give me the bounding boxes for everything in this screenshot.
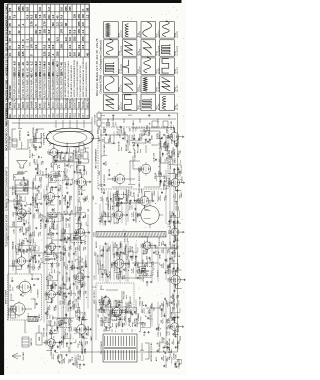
svg-text:RF UNIT: RF UNIT: [8, 308, 10, 316]
resistor R200: [118, 248, 121, 256]
svg-text:6T8: 6T8: [38, 103, 42, 108]
svg-text:470K: 470K: [151, 134, 153, 139]
capacitor C150: [70, 301, 75, 309]
svg-text:270: 270: [86, 264, 88, 267]
svg-text:C219 .047: C219 .047: [150, 311, 152, 320]
capacitor C200: [116, 202, 119, 207]
wire stage net: [114, 191, 124, 203]
module resistor R93: [124, 291, 127, 299]
brightness control R177: [126, 143, 131, 153]
ground symbol: [124, 311, 126, 313]
svg-text:R91: R91: [101, 285, 103, 289]
svg-text:470K: 470K: [174, 127, 176, 132]
net label: [44, 197, 46, 200]
svg-text:AGC: AGC: [175, 236, 178, 241]
bottom right terminal components: [150, 121, 168, 127]
junction dot: [78, 228, 81, 231]
ground symbol: [85, 266, 87, 268]
wire stub: [86, 222, 89, 226]
svg-text:6CG7: 6CG7: [51, 101, 55, 108]
wire stage net: [61, 229, 71, 239]
svg-text:255: 255: [64, 6, 68, 11]
svg-text:T101 POWER: T101 POWER: [101, 341, 103, 354]
IF transformer T9: [69, 234, 87, 243]
net label: [16, 247, 18, 252]
junction dot: [52, 169, 55, 172]
svg-text:AUDIO: AUDIO: [95, 241, 98, 248]
svg-text:AGC: AGC: [177, 152, 180, 157]
border frame right bar: [0, 0, 182, 3]
svg-text:15,750 CPS: 15,750 CPS: [121, 45, 123, 55]
resistor R156: [62, 228, 67, 234]
wire stub: [171, 151, 174, 155]
capacitor C262: [175, 138, 180, 145]
wire stub: [27, 202, 30, 205]
net label: [182, 176, 184, 183]
IF transformer T1: [55, 319, 73, 328]
net label speckle group: [7, 126, 178, 358]
resistor R134: [57, 262, 61, 267]
junction dot: [68, 246, 71, 249]
coil L212: [132, 212, 134, 218]
net label: [64, 292, 66, 297]
capacitor C195: [119, 318, 121, 321]
wire stub: [175, 199, 178, 202]
svg-text:V12: V12: [60, 113, 64, 118]
svg-text:FUNCTION: FUNCTION: [9, 85, 12, 98]
wire stage net: [102, 316, 110, 328]
resistor R177: [79, 217, 82, 226]
svg-text:GRID: GRID: [64, 334, 66, 339]
resistor R227: [167, 356, 171, 361]
svg-text:15,750 CPS: 15,750 CPS: [121, 63, 123, 73]
svg-text:NO.: NO.: [9, 113, 12, 118]
wire tuner outputs: [16, 266, 39, 333]
wire HV extra nets: [112, 135, 166, 187]
resistor R234: [167, 263, 171, 269]
capacitor C177: [80, 241, 82, 244]
coil L260: [174, 193, 176, 199]
svg-text:V17: V17: [81, 113, 85, 118]
svg-text:V11: V11: [55, 113, 59, 118]
resistor R136: [50, 223, 55, 229]
capacitor C161: [67, 195, 72, 204]
resistor R150: [61, 282, 66, 289]
wire stub: [20, 214, 23, 217]
wire stub: [115, 313, 118, 317]
resistor R183: [76, 147, 79, 158]
svg-text:NOTE 5: NOTE 5: [158, 270, 160, 277]
tube V14: [110, 306, 122, 319]
net label: [85, 195, 87, 201]
tube V18: [137, 194, 149, 207]
svg-text:1.2: 1.2: [47, 7, 51, 11]
svg-text:6: 6: [63, 118, 65, 119]
capacitor C145: [66, 342, 69, 347]
junction dot: [142, 304, 145, 307]
svg-text:TELEVISION CHASSIS KCS68 — SCH: TELEVISION CHASSIS KCS68 — SCHEMATIC CIR…: [5, 166, 8, 247]
oscillogram caption heading: [95, 38, 102, 96]
wire stub: [117, 127, 120, 130]
resistor R233: [167, 301, 171, 307]
svg-text:6S4: 6S4: [60, 103, 64, 108]
svg-text:7.6: 7.6: [13, 14, 17, 18]
svg-text:2.2: 2.2: [64, 37, 68, 41]
svg-text:VIDEO: VIDEO: [159, 132, 161, 139]
wire CRT neck leads: [12, 129, 44, 149]
wire stage net: [157, 174, 167, 182]
capacitor C128: [49, 329, 52, 334]
svg-text:NC: NC: [77, 52, 81, 56]
tube V13: [75, 176, 86, 188]
junction dot: [22, 186, 25, 189]
resistor R167: [85, 340, 89, 345]
svg-text:2.2: 2.2: [55, 22, 59, 26]
svg-text:CATH: CATH: [12, 260, 15, 266]
capacitor C188: [107, 271, 112, 278]
capacitor C121: [38, 179, 43, 188]
ground symbol: [24, 204, 26, 206]
resistor R157: [66, 217, 69, 227]
wire stage net: [99, 263, 107, 275]
capacitor C213: [133, 212, 138, 221]
svg-text:5U4G: 5U4G: [81, 101, 85, 108]
resistor R267: [171, 120, 174, 129]
junction dot: [99, 249, 102, 252]
ground symbol: [182, 231, 184, 233]
capacitor C175: [81, 266, 84, 271]
capacitor C207: [127, 307, 132, 314]
capacitor C113: [32, 250, 37, 260]
capacitor C156: [64, 237, 67, 242]
capacitor C187: [101, 273, 104, 278]
svg-text:© JOHN F. RIDER: © JOHN F. RIDER: [5, 108, 8, 127]
capacitor C157: [60, 232, 65, 241]
wire stub: [68, 211, 71, 215]
resistor R173: [82, 277, 85, 287]
svg-text:275V: 275V: [64, 292, 66, 297]
svg-text:HTR: HTR: [60, 300, 62, 305]
resistor R247: [171, 311, 174, 320]
resistor R202: [119, 196, 122, 206]
svg-text:C245 33: C245 33: [177, 342, 179, 349]
svg-text:40MF: 40MF: [173, 220, 175, 226]
wire tube V4 leads: [17, 204, 29, 222]
capacitor C240: [162, 153, 164, 156]
resistor R220: [140, 296, 143, 305]
svg-text:-45: -45: [51, 62, 55, 66]
svg-text:6.8: 6.8: [51, 44, 55, 48]
wire stage net: [48, 176, 56, 187]
net label: [95, 241, 98, 248]
capacitor C214: [129, 200, 132, 205]
capacitor C125: [54, 350, 56, 353]
junction dot: [145, 127, 148, 130]
resistor R195: [122, 322, 126, 327]
wire tube V18 leads: [145, 191, 153, 209]
svg-text:255: 255: [60, 44, 64, 49]
svg-text:RF AMPLIFIER KRK32 UNIT: RF AMPLIFIER KRK32 UNIT: [14, 66, 17, 98]
net label: [111, 302, 113, 308]
svg-text:BOOST: BOOST: [130, 295, 132, 303]
capacitor C141: [51, 186, 54, 191]
svg-text:270K: 270K: [35, 199, 37, 204]
junction dot: [84, 348, 87, 351]
wire stub: [167, 221, 170, 225]
net label: [173, 268, 175, 274]
wire stub: [167, 226, 170, 229]
capacitor C122: [38, 156, 40, 159]
coil L103: [21, 227, 23, 233]
svg-text:.005: .005: [117, 253, 119, 257]
capacitor C123: [35, 163, 40, 170]
coil L109: [32, 264, 34, 270]
resistor R197: [116, 299, 119, 307]
capacitor C260: [176, 145, 178, 148]
svg-text:R266 470K: R266 470K: [172, 133, 174, 143]
svg-text:2.2: 2.2: [77, 44, 81, 48]
net label: [58, 170, 61, 175]
svg-text:170: 170: [13, 72, 17, 77]
resistor R170: [76, 306, 81, 313]
net label: [30, 138, 32, 143]
wire bottom bus extension: [100, 113, 178, 125]
svg-text:Chassis KCS68 — Oscillograms (: Chassis KCS68 — Oscillograms (Continued): [99, 40, 103, 93]
svg-text:AGC: AGC: [58, 170, 61, 175]
net label 18KV: [99, 136, 101, 142]
wire stage net: [75, 310, 83, 318]
speaker LS1: [17, 161, 32, 168]
wire B+ bus top: [8, 120, 10, 319]
capacitor C107: [20, 205, 23, 210]
svg-text:6SN7: 6SN7: [46, 339, 48, 345]
svg-text:140V: 140V: [52, 198, 54, 203]
svg-text:KRK32 TUNER: KRK32 TUNER: [6, 289, 8, 304]
wire tube V3 leads: [17, 252, 29, 269]
svg-text:7: 7: [77, 118, 79, 119]
svg-text:6CB6: 6CB6: [142, 242, 144, 248]
net label: [14, 198, 16, 203]
capacitor C130: [27, 131, 30, 136]
wire stub: [81, 187, 84, 190]
resistor R124: [57, 353, 61, 359]
tuner channel strip box: [8, 306, 15, 318]
svg-text:120K: 120K: [129, 263, 131, 268]
wire stage net: [76, 355, 84, 365]
svg-text:7.6: 7.6: [38, 14, 42, 18]
capacitor C132: [51, 284, 54, 289]
wire stub: [43, 340, 46, 343]
junction dot: [84, 260, 87, 263]
ground symbol: [177, 221, 179, 223]
svg-text:L28: L28: [131, 269, 133, 272]
svg-text:C155 560: C155 560: [65, 248, 67, 256]
capacitor C137: [47, 229, 52, 236]
wire tube V15 leads: [112, 254, 127, 272]
svg-text:C103 10MF: C103 10MF: [22, 241, 24, 252]
svg-text:R183 1MEG: R183 1MEG: [76, 147, 78, 158]
svg-text:V5: V5: [30, 114, 34, 118]
junction dot: [69, 266, 72, 269]
svg-text:255: 255: [81, 36, 85, 41]
net label: [101, 295, 103, 301]
svg-text:6.3: 6.3: [55, 37, 59, 41]
svg-text:82: 82: [54, 221, 56, 223]
capacitor C257: [176, 189, 178, 192]
junction dot: [95, 202, 98, 205]
coil L179: [78, 197, 80, 203]
svg-text:.25: .25: [102, 276, 104, 279]
svg-text:R165: R165: [147, 125, 149, 130]
net label: [160, 304, 162, 309]
wire stub: [70, 166, 73, 169]
capacitor C148: [59, 319, 64, 327]
resistor R139: [49, 177, 54, 183]
resistor R176: [83, 246, 87, 251]
resistor R214: [127, 189, 132, 196]
svg-text:SOUND DET AND AVC DIODE: SOUND DET AND AVC DIODE: [35, 64, 38, 98]
capacitor C108: [16, 202, 21, 210]
svg-text:120K: 120K: [167, 318, 169, 323]
capacitor C230: [164, 314, 166, 317]
svg-text:6SN7GT: 6SN7GT: [64, 97, 68, 108]
wire bottom bus: [177, 125, 179, 352]
net label: [55, 306, 57, 311]
svg-text:L13: L13: [100, 197, 102, 200]
svg-text:R251 8.2K: R251 8.2K: [175, 278, 177, 288]
resistor R170: [128, 114, 132, 117]
wire stage net: [76, 206, 86, 218]
svg-text:275V: 275V: [55, 306, 57, 311]
wire stub: [101, 271, 104, 274]
svg-text:6.3V: 6.3V: [8, 235, 10, 240]
tube V22: [169, 177, 180, 189]
junction dot: [158, 165, 161, 168]
fuse F1: [105, 328, 110, 331]
tuner fine tuning cap: [31, 274, 39, 281]
svg-text:270K: 270K: [106, 316, 108, 321]
svg-text:120K: 120K: [149, 131, 151, 136]
wire stub: [35, 242, 38, 246]
svg-text:C152 120: C152 120: [59, 286, 61, 294]
svg-text:45: 45: [47, 38, 51, 41]
resistor R103: [26, 226, 30, 232]
ground symbol HV: [163, 184, 165, 186]
resistor R168: [80, 328, 83, 338]
svg-text:C131 33: C131 33: [48, 308, 50, 315]
wire right vertical feeder: [12, 122, 92, 124]
svg-text:-1.2: -1.2: [38, 61, 42, 66]
resistor R175: [79, 256, 84, 262]
svg-text:MATCH: MATCH: [30, 338, 33, 345]
ground symbol: [56, 232, 58, 234]
svg-text:V1: V1: [85, 114, 89, 118]
svg-text:V10: V10: [51, 113, 55, 118]
svg-text:255: 255: [68, 6, 72, 11]
junction dot: [177, 330, 180, 333]
resistor R158: [70, 210, 74, 216]
wire stage net: [170, 306, 180, 317]
fusible resistor block: [95, 111, 105, 130]
svg-text:70: 70: [43, 73, 47, 76]
ground symbol: [68, 292, 70, 294]
svg-text:135: 135: [73, 14, 77, 19]
coil L194: [102, 137, 104, 143]
junction dot: [56, 345, 59, 348]
capacitor C178: [73, 247, 78, 255]
svg-text:C148 .068: C148 .068: [154, 153, 156, 162]
svg-text:135: 135: [60, 72, 64, 77]
svg-text:L22: L22: [117, 131, 119, 134]
svg-text:255: 255: [34, 14, 38, 19]
capacitor C222: [142, 264, 147, 273]
resistor R47: [12, 187, 15, 195]
capacitor C106: [18, 212, 23, 221]
resistor R193: [102, 183, 105, 193]
svg-text:R2 10K: R2 10K: [11, 293, 13, 300]
coil L198: [117, 274, 119, 280]
svg-text:255: 255: [77, 21, 81, 26]
ground symbol: [59, 245, 61, 247]
ground symbol: [182, 136, 184, 138]
net label: [114, 253, 116, 258]
coil L223: [146, 261, 148, 267]
wire stub: [49, 244, 52, 247]
svg-text:680K: 680K: [125, 247, 127, 252]
net label: [169, 160, 171, 165]
svg-text:TO T3: TO T3: [131, 309, 133, 314]
capacitor C204: [131, 313, 133, 316]
svg-text:7.6: 7.6: [21, 44, 25, 48]
capacitor C229: [157, 343, 162, 353]
svg-text:0.6: 0.6: [60, 7, 64, 11]
capacitor C218: [145, 304, 147, 307]
svg-text:8.2K: 8.2K: [37, 128, 39, 133]
svg-text:45: 45: [85, 53, 89, 56]
capacitor C242: [174, 362, 177, 368]
resistor R137: [52, 213, 55, 223]
capacitor C234: [164, 259, 166, 262]
capacitor C159: [67, 214, 72, 222]
wire tube V22 leads: [168, 174, 182, 191]
wire stub: [119, 314, 122, 318]
ground symbol: [134, 311, 136, 313]
svg-text:TO V7: TO V7: [30, 225, 32, 231]
svg-text:L115: L115: [130, 179, 132, 183]
tuner shield dashed box KRK: [6, 274, 42, 320]
net label: [178, 300, 180, 306]
capacitor C143: [54, 159, 56, 162]
svg-text:L1: L1: [78, 199, 80, 201]
coil L124: [51, 354, 53, 360]
wire stub: [50, 286, 53, 289]
capacitor C109: [23, 177, 25, 180]
capacitor C226: [164, 351, 166, 354]
ground symbol: [126, 214, 128, 216]
svg-text:C248 .02: C248 .02: [175, 313, 177, 321]
resistor R153: [61, 250, 64, 260]
svg-text:1B3GT: 1B3GT: [114, 175, 116, 182]
wire tube V20 leads: [176, 270, 184, 289]
resistor R194: [108, 137, 112, 143]
svg-text:120: 120: [24, 223, 26, 226]
ground symbol: [120, 202, 122, 204]
wire stage net: [32, 138, 42, 148]
net label: [105, 212, 107, 217]
capacitor C243: [176, 359, 181, 368]
ground symbol: [82, 316, 84, 318]
resistor R190: [102, 211, 107, 217]
